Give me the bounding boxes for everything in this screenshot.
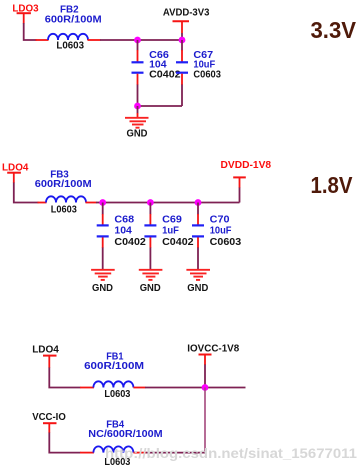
ground GND (C68) (91, 270, 115, 294)
svg-text:1uF: 1uF (162, 225, 179, 237)
ferrite bead FB4 (93, 446, 133, 452)
svg-text:600R/100M: 600R/100M (45, 13, 102, 25)
pin FB2 left (36, 39, 49, 41)
wire LDO4 to FB1 (49, 368, 80, 388)
power port DVDD-1V8 (221, 159, 272, 203)
pin FB2 right (88, 39, 101, 41)
svg-text:10uF: 10uF (210, 225, 232, 237)
pin FB1 right (133, 387, 145, 389)
port IOVCC-1V8 (187, 342, 239, 387)
svg-text:GND: GND (140, 282, 161, 294)
wire VCC-IO to FB4 (49, 433, 80, 453)
wire LDO3 to FB2 (24, 23, 37, 40)
junction node C67/top (179, 37, 186, 44)
svg-text:VCC-IO: VCC-IO (32, 411, 66, 423)
svg-text:104: 104 (114, 225, 132, 237)
wire C66 bottom to C67 bottom (138, 105, 183, 107)
wire IOVCC node to right end (205, 387, 246, 389)
wire C69 node to C70 node (150, 202, 198, 204)
svg-text:http://blog.csdn.net/sinat_156: http://blog.csdn.net/sinat_15677011 (105, 445, 357, 461)
ground GND (C69) (139, 270, 163, 294)
port LDO4 (middle) (2, 161, 29, 183)
svg-text:GND: GND (92, 282, 113, 294)
svg-text:LDO4: LDO4 (32, 344, 59, 356)
ferrite bead FB3 (46, 196, 86, 202)
svg-text:L0603: L0603 (51, 203, 77, 215)
wire C66 node to C67 node (138, 39, 183, 41)
wire C70 node to DVDD corner (198, 202, 240, 204)
wire FB2 to C66 node (100, 39, 138, 41)
junction node C66/top (134, 37, 141, 44)
wire FB3 to C68 node (96, 202, 103, 204)
capacitor C68 (97, 203, 109, 270)
ground GND (C70) (186, 270, 210, 294)
junction node C70 (195, 199, 202, 206)
ground GND (top) (125, 106, 149, 140)
port VCC-IO (32, 411, 66, 433)
port LDO3 (12, 3, 38, 24)
svg-text:L0603: L0603 (104, 388, 130, 400)
wire IOVCC node down to FB4 row (204, 388, 206, 453)
wire FB4 to riser corner (146, 452, 205, 454)
capacitor C66 (132, 40, 144, 106)
junction node GND/top (134, 103, 141, 110)
capacitor C70 (192, 203, 204, 270)
svg-text:C0603: C0603 (210, 236, 242, 248)
svg-text:L0603: L0603 (56, 40, 84, 52)
svg-text:3.3V: 3.3V (311, 17, 357, 43)
pin FB1 left (80, 387, 94, 389)
wire C68 node to C69 node (103, 202, 151, 204)
svg-text:C0402: C0402 (149, 69, 181, 81)
svg-text:C0603: C0603 (193, 69, 221, 81)
junction node C69 (147, 199, 154, 206)
svg-text:1.8V: 1.8V (311, 172, 353, 198)
svg-text:GND: GND (187, 282, 208, 294)
pin FB3 left (38, 202, 47, 204)
junction node IOVCC (202, 384, 209, 391)
svg-text:DVDD-1V8: DVDD-1V8 (221, 159, 272, 171)
svg-text:NC/600R/100M: NC/600R/100M (88, 428, 163, 440)
pin FB4 left (80, 452, 94, 454)
pin FB3 right (86, 202, 97, 204)
pin FB4 right (133, 452, 146, 454)
svg-text:C0402: C0402 (162, 236, 194, 248)
svg-text:C0402: C0402 (114, 236, 146, 248)
svg-text:GND: GND (127, 128, 148, 140)
svg-text:LDO4: LDO4 (2, 161, 29, 173)
wire LDO4 to FB3 (14, 183, 39, 203)
port LDO4 (bottom) (32, 344, 59, 368)
svg-text:600R/100M: 600R/100M (84, 360, 144, 372)
svg-text:AVDD-3V3: AVDD-3V3 (163, 6, 210, 18)
svg-text:IOVCC-1V8: IOVCC-1V8 (187, 342, 239, 354)
power port AVDD-3V3 (163, 6, 210, 40)
svg-text:600R/100M: 600R/100M (35, 178, 92, 190)
ferrite bead FB1 (93, 381, 133, 387)
junction node C68 (99, 199, 106, 206)
wire FB1 to IOVCC node (145, 387, 205, 389)
capacitor C67 (176, 40, 188, 106)
capacitor C69 (144, 203, 156, 270)
ferrite bead FB2 (48, 34, 88, 40)
